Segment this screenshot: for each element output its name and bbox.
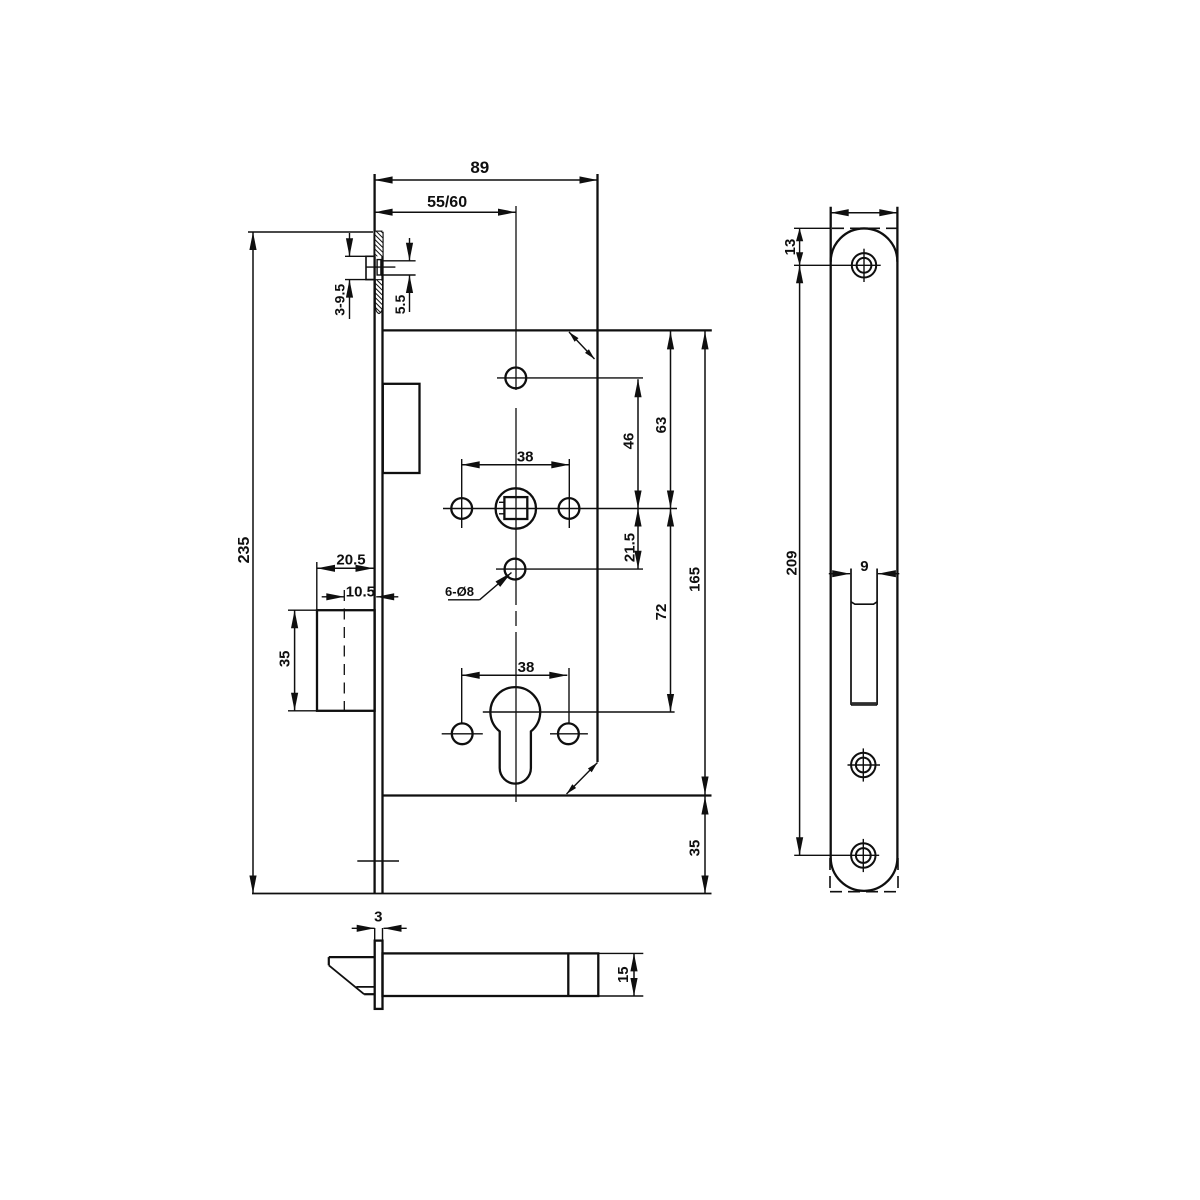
cylinder centre line / dim 72 extension [483, 711, 675, 713]
spindle follower circle [496, 488, 536, 528]
lower fixing hole [505, 559, 526, 580]
faceplate back edge [381, 232, 383, 894]
svg-text:9: 9 [860, 558, 868, 575]
spindle square side ticks [499, 501, 504, 503]
dim 38 lower left extension [461, 668, 463, 723]
dim 10.5 arrows [322, 596, 345, 598]
svg-text:10.5: 10.5 [346, 584, 375, 601]
dim 3-9.5 bottom extension [345, 279, 375, 281]
svg-text:3-9.5: 3-9.5 [331, 284, 347, 316]
faceplate rounded top [831, 228, 898, 261]
dim 235 [252, 232, 254, 894]
svg-text:235: 235 [236, 537, 253, 564]
dim 15 top extension [598, 952, 643, 954]
top screw hole centre line [794, 264, 881, 266]
svg-text:35: 35 [277, 650, 294, 667]
right handle fixing hole [559, 498, 580, 519]
faceplate right edge [896, 207, 898, 858]
faceplate section hatching (top part) [375, 232, 382, 257]
corner double arrow top right [569, 332, 595, 359]
case cap line in plan [567, 953, 569, 996]
dim 89 [375, 179, 598, 181]
faceplate front edge [373, 174, 375, 894]
faceplate break tick [357, 860, 399, 862]
svg-text:21.5: 21.5 [622, 533, 639, 562]
latch bolt centre tick [366, 266, 395, 268]
lower hole centre line / dim 21.5 extension [496, 568, 643, 570]
plate width dim (unlabelled) [831, 212, 898, 214]
dim 46 [637, 379, 639, 508]
dim 13 line [799, 228, 801, 265]
faceplate section hatching (below latch) [375, 280, 382, 314]
dim 35 bottom extension [288, 710, 317, 712]
square-end plate dashed bottom [830, 891, 898, 893]
svg-text:165: 165 [687, 567, 704, 592]
svg-text:3: 3 [374, 909, 382, 926]
dim 5.5 bottom extension [381, 274, 416, 276]
dim 38 lower right extension [568, 668, 570, 723]
svg-text:15: 15 [615, 966, 632, 983]
dim 3-9.5 arrows [349, 233, 351, 256]
latch bolt section in plate [377, 260, 381, 275]
case back edge / dim 89 extension [596, 174, 598, 762]
dim 5.5 top extension [381, 260, 416, 262]
dim 209 [799, 265, 801, 855]
svg-text:38: 38 [518, 659, 535, 676]
top screw hole [852, 253, 876, 277]
bottom screw hole centre line [794, 854, 879, 856]
svg-text:89: 89 [470, 158, 489, 177]
dashed bottom left stub [829, 858, 831, 892]
dim 9 arrows [829, 573, 850, 575]
faceplate top edge [375, 231, 383, 233]
dim 5.5 arrows [409, 238, 411, 261]
case bottom edge / extension [383, 794, 712, 796]
svg-text:20.5: 20.5 [336, 552, 365, 569]
faceplate in plan [375, 941, 383, 1009]
svg-text:63: 63 [653, 417, 670, 434]
middle screw hole [851, 753, 875, 777]
dim 38 lower [462, 674, 568, 676]
faceplate left edge [830, 207, 832, 858]
spindle row centre line [443, 508, 677, 510]
dim 35 left [294, 610, 296, 711]
spindle square hole [504, 497, 527, 519]
dim 3-9.5 top extension [345, 255, 375, 257]
svg-text:5.5: 5.5 [392, 295, 408, 315]
svg-text:46: 46 [620, 433, 637, 450]
square-end plate dashed top [832, 227, 897, 229]
lock case in plan [383, 953, 599, 996]
dim 3 arrows [352, 927, 375, 929]
dim 13 top extension [794, 227, 831, 229]
cylinder hole (euro profile) [490, 687, 540, 784]
top hole centre line / dim 46 extension [497, 377, 643, 379]
svg-text:38: 38 [517, 449, 534, 466]
cylinder left fixing hole [452, 723, 473, 744]
dim 72 [670, 509, 672, 713]
latch follower box [383, 384, 420, 473]
case top edge / extension [383, 329, 712, 331]
svg-text:55/60: 55/60 [427, 194, 467, 211]
dashed bottom right stub [897, 858, 899, 892]
baseline extension at case bottom [252, 893, 712, 895]
dim 15 [633, 953, 635, 996]
leader 6-O8 [480, 573, 512, 600]
dim 20.5 [317, 567, 374, 569]
svg-text:209: 209 [783, 550, 800, 575]
bottom screw hole [851, 843, 875, 867]
dim 35 top extension [288, 609, 317, 611]
left handle fixing hole [451, 498, 472, 519]
dim 38 right extension [568, 459, 570, 528]
right fixing hole tick [550, 733, 588, 735]
top fixing hole [505, 368, 526, 389]
latch bolt head [366, 256, 375, 279]
svg-text:6-Ø8: 6-Ø8 [445, 584, 474, 599]
latch bolt in plan [329, 956, 375, 958]
cylinder right fixing hole [558, 723, 579, 744]
dim 63 [670, 331, 672, 508]
corner double arrow bottom right [567, 763, 598, 795]
left fixing hole tick [442, 733, 483, 735]
latch window in plate [850, 569, 852, 705]
dim 35 lower right [704, 797, 706, 894]
dim 235 top extension line [248, 231, 373, 233]
slot dashed centre line [343, 590, 345, 711]
deadbolt slot box [317, 610, 375, 711]
dim 55/60 (backset) [375, 211, 516, 213]
dim 38 upper [462, 464, 570, 466]
faceplate rounded bottom [831, 858, 898, 891]
svg-text:35: 35 [687, 840, 704, 857]
dim 38 left extension [461, 459, 463, 528]
svg-text:72: 72 [653, 604, 670, 621]
dim 3 extension stubs [374, 928, 376, 941]
dim 165 [704, 331, 706, 794]
dim 15 bottom extension [598, 995, 643, 997]
svg-text:13: 13 [782, 239, 799, 256]
dim 20.5 left extension [316, 562, 318, 610]
dim 21.5 [637, 509, 639, 569]
vertical centreline [515, 206, 517, 390]
